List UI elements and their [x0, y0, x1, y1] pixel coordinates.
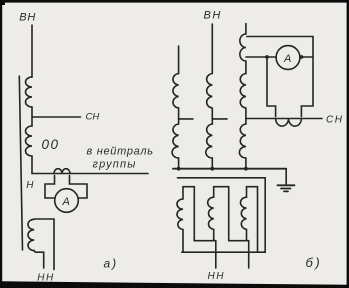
- wire HH long bottom: [182, 251, 265, 253]
- wire bar2: [229, 240, 249, 242]
- wire terminal lead1: [215, 241, 217, 268]
- svg-text:А: А: [283, 53, 291, 65]
- svg-text:СН: СН: [326, 115, 343, 126]
- svg-text:группы: группы: [93, 159, 137, 171]
- wire phase B bottom: [211, 158, 213, 169]
- wire HH top bar: [34, 218, 54, 220]
- wire hoop2 right v4: [228, 187, 230, 241]
- wire neutral line: [32, 173, 148, 175]
- wire CT secondary left: [45, 176, 55, 199]
- wire terminal lead2: [248, 241, 250, 268]
- svg-text:00: 00: [42, 137, 60, 152]
- winding phase C CH coil (3 loops): [239, 124, 246, 158]
- wire HH rail: [178, 177, 266, 179]
- winding phase B CH coil (3 loops): [206, 124, 212, 158]
- frame border right: [347, 0, 349, 288]
- wire bar1: [194, 240, 216, 242]
- wire CT secondary right: [70, 176, 88, 199]
- svg-text:НН: НН: [208, 271, 225, 282]
- hoop1 top bar: [183, 186, 194, 188]
- junction dot phase C bus: [244, 167, 248, 171]
- junction dot phase A bus: [177, 167, 181, 171]
- wire BH lead down: [31, 25, 33, 77]
- junction dot left: [265, 55, 269, 59]
- winding coil BH (upper, 3 loops): [26, 77, 32, 107]
- junction dot right: [300, 55, 304, 59]
- wire ammeter line: [246, 56, 276, 58]
- wire HH bottom lead: [34, 251, 44, 269]
- svg-text:в нейтраль: в нейтраль: [87, 146, 154, 158]
- svg-text:Н: Н: [26, 180, 34, 191]
- wire ammeter right link: [300, 56, 313, 58]
- wire phase A tap stub: [179, 118, 193, 120]
- wire phase C bottom: [245, 158, 247, 169]
- wire phase A top: [178, 46, 180, 74]
- wire phase C mid upper: [245, 61, 247, 74]
- wire neutral bus: [173, 168, 286, 170]
- frame border bottom: [0, 281, 349, 288]
- winding HH coil3: [241, 187, 247, 241]
- wire ground stub: [285, 169, 287, 185]
- junction dot phase B bus: [210, 167, 214, 171]
- wire v7 right down: [264, 178, 266, 252]
- wire ammeter top link: [247, 37, 313, 117]
- svg-text:А: А: [62, 196, 70, 208]
- wire CH tap: [32, 116, 81, 118]
- winding phase C BH coil (3 loops): [240, 74, 246, 109]
- wire CH line (right): [246, 118, 322, 120]
- svg-text:НН: НН: [37, 273, 54, 284]
- svg-text:СН: СН: [86, 112, 100, 123]
- svg-text:ВН: ВН: [19, 12, 36, 24]
- wire to neutral: [31, 156, 33, 174]
- wire phase B mid: [211, 108, 213, 124]
- winding HH coil1: [177, 187, 183, 253]
- svg-text:а): а): [104, 257, 119, 271]
- core line (left vertical): [19, 76, 22, 250]
- CT humps below CH line: [276, 119, 302, 127]
- svg-text:ВН: ВН: [204, 10, 222, 22]
- wire phase A mid: [178, 108, 180, 124]
- wire phase B top: [211, 24, 213, 74]
- winding coil CH (lower, 3 loops): [26, 126, 32, 156]
- winding phase A BH coil (3 loops): [173, 74, 179, 109]
- wire HH right vertical: [53, 219, 55, 270]
- winding phase A CH coil (3 loops): [172, 124, 179, 158]
- winding phase B BH coil (3 loops): [207, 74, 213, 109]
- hoop3 top bar: [247, 186, 258, 188]
- frame border top: [0, 0, 349, 3]
- ammeter A1 circle: [55, 189, 79, 213]
- wire phase C mid: [245, 108, 247, 124]
- wire between coils: [31, 107, 33, 126]
- ammeter A2 circle: [276, 46, 300, 70]
- wire hoop1 right v2: [193, 187, 195, 241]
- frame border left: [0, 0, 2, 288]
- wire hoop3 right v6: [257, 187, 259, 253]
- winding coil HH (left, 3 loops): [28, 219, 34, 250]
- wire phase A bottom: [178, 158, 180, 169]
- svg-text:б): б): [306, 255, 323, 270]
- CT primary humps (left circuit): [54, 169, 70, 174]
- corner blob top-left: [0, 0, 5, 5]
- CT primary coil on phase C (2 loops): [240, 34, 246, 61]
- wire secondary left bracket: [267, 57, 276, 117]
- wire phase C top stub: [245, 24, 247, 35]
- hoop2 top bar: [214, 186, 229, 188]
- ground symbol: [278, 184, 295, 186]
- winding HH coil2: [208, 187, 214, 241]
- wire phase B tap stub: [212, 118, 227, 120]
